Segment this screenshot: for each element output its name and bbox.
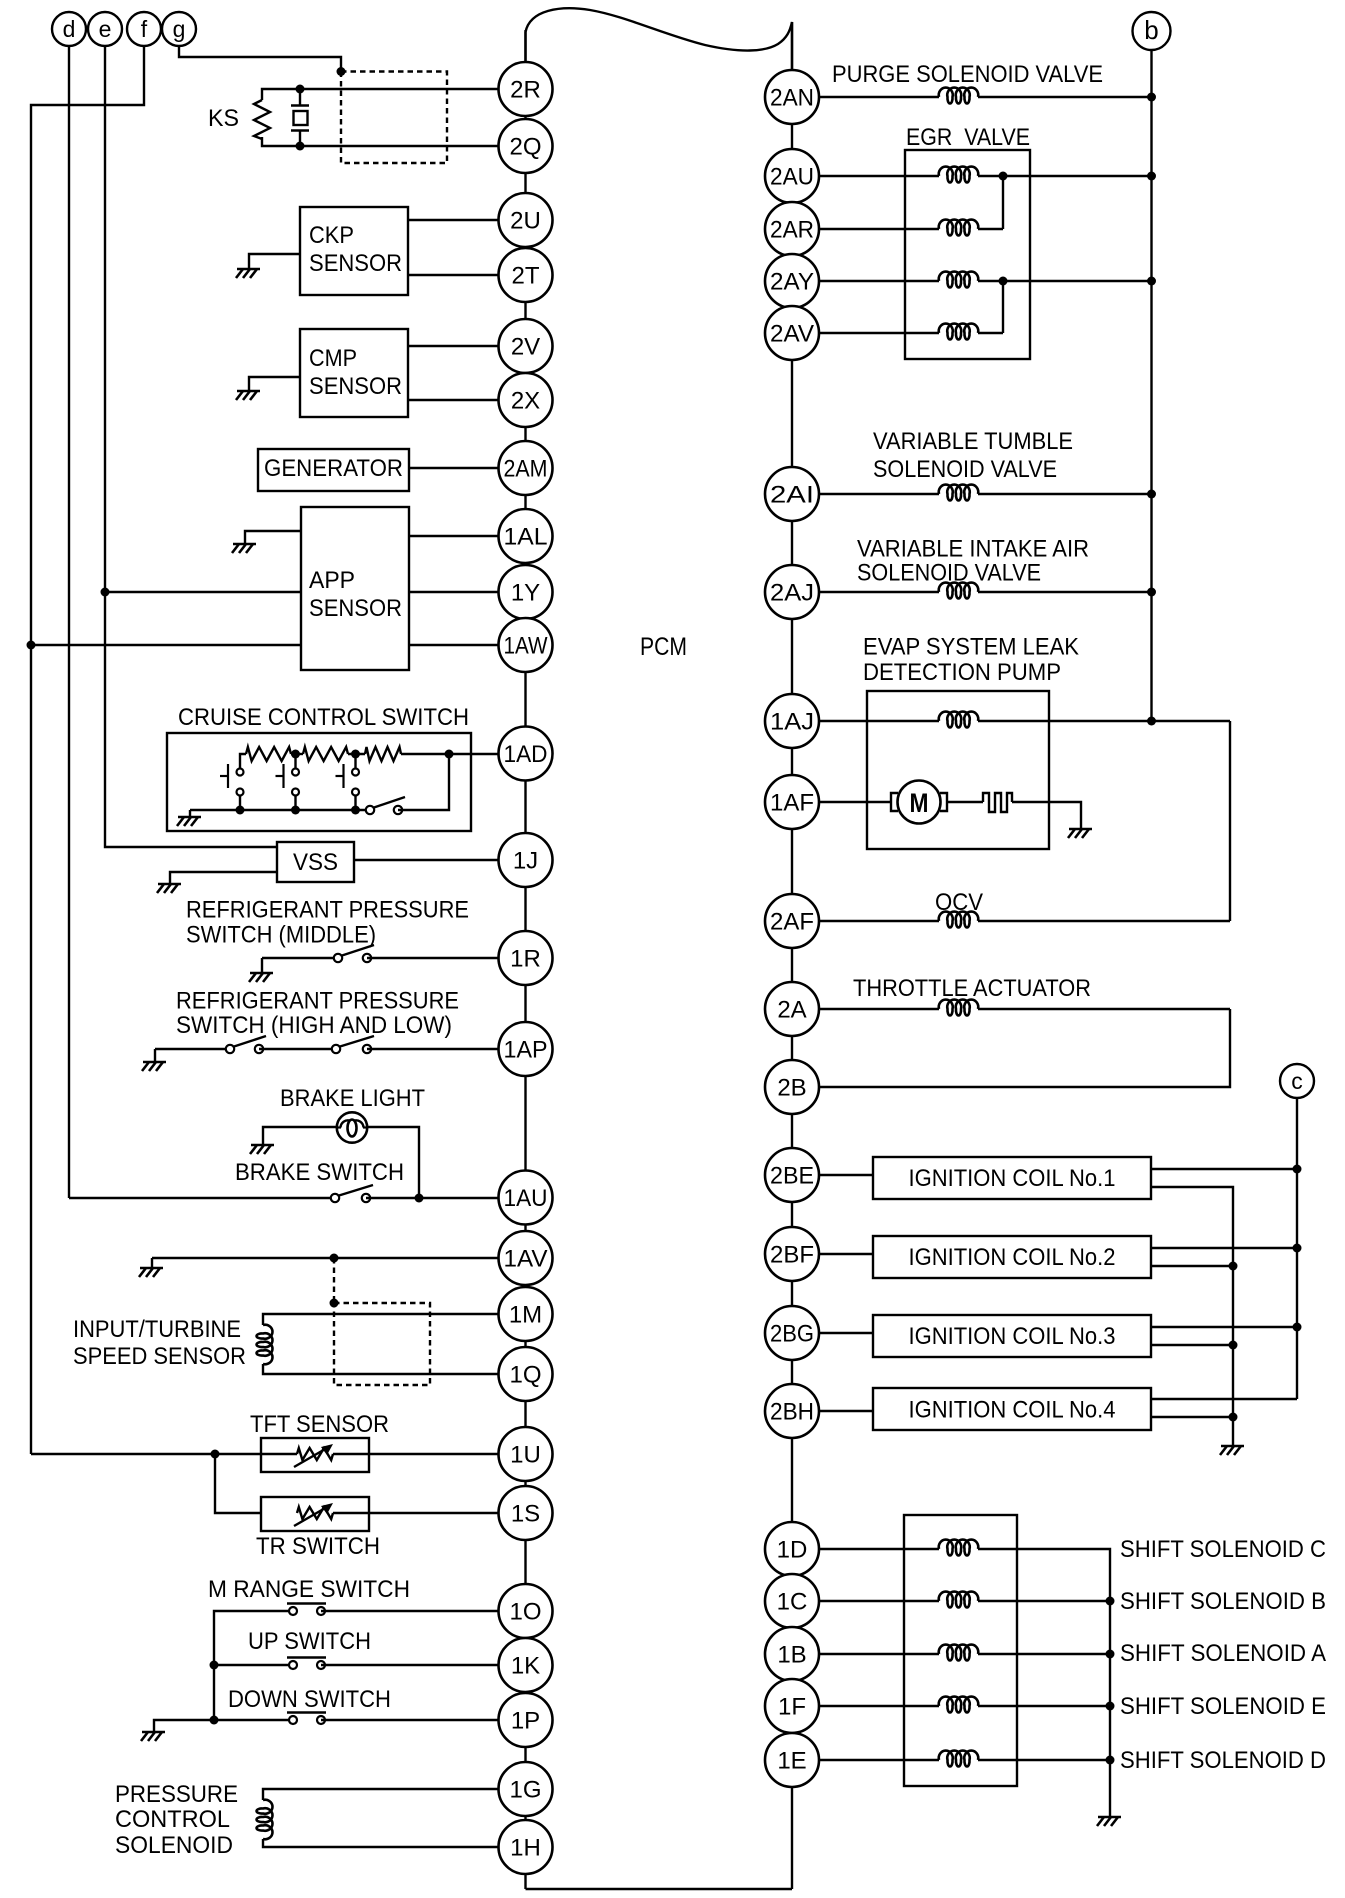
push switch cruise S2 [294,754,296,769]
svg-text:PURGE SOLENOID VALVE: PURGE SOLENOID VALVE [832,61,1103,88]
PCM pin 1P [499,1693,553,1747]
wire 1C line [819,1600,939,1602]
svg-text:1AP: 1AP [504,1037,548,1064]
node KS bottom [296,142,305,151]
PCM pin 2U [499,193,553,247]
node EGR 2 [999,277,1008,286]
svg-text:1C: 1C [777,1589,808,1616]
node ignition 3 at c bus [1293,1323,1302,1332]
svg-text:IGNITION COIL No.3: IGNITION COIL No.3 [909,1323,1116,1350]
inductor EGR coil 3 [939,272,979,288]
wire 2AI line [819,493,939,495]
node brake light junction [415,1194,424,1203]
wire VSS to 1J [354,859,499,861]
svg-text:1O: 1O [509,1599,541,1626]
svg-text:2AJ: 2AJ [770,580,814,607]
wire 1H [263,1839,499,1847]
svg-text:c: c [1291,1068,1303,1094]
svg-text:CKP: CKP [309,222,354,249]
wire shield drop (dashed) [333,1258,335,1303]
node EGR 1 [999,172,1008,181]
svg-text:THROTTLE ACTUATOR: THROTTLE ACTUATOR [853,975,1091,1002]
wire 1R to pin [367,957,499,959]
wire 2AN line [819,96,939,98]
node shift A [1106,1650,1115,1659]
svg-text:DOWN SWITCH: DOWN SWITCH [228,1686,391,1713]
wire 1AF line [819,801,891,803]
PCM pin 2BE [765,1148,819,1202]
svg-text:2AF: 2AF [770,909,814,936]
wire 1AJ to OCV return [1229,721,1231,921]
PCM pin 1R [499,931,553,985]
svg-text:SOLENOID: SOLENOID [115,1832,233,1859]
node cruise bottom 3 [351,806,360,815]
PCM pin 1AV [499,1231,553,1285]
ground brake light [251,1144,274,1147]
wire 1AP to pin [367,1048,499,1050]
node 1AV shield junction [330,1254,339,1263]
inductor variable intake air solenoid [939,583,979,599]
node EGR 2 at b bus [1147,277,1156,286]
svg-text:1K: 1K [511,1653,540,1680]
svg-text:1J: 1J [513,848,538,875]
PCM pin 1F [765,1679,819,1733]
node f-line 1AW junction [27,641,36,650]
PCM pin 2AN [765,70,819,124]
PCM pin 2AI [765,467,819,521]
lamp brake light [337,1112,367,1142]
svg-text:1S: 1S [511,1501,540,1528]
svg-text:2BG: 2BG [770,1321,814,1348]
node cruise rail 2 [351,750,360,759]
wire down switch left [214,1719,293,1721]
svg-text:1AF: 1AF [770,790,814,817]
node e [88,12,122,46]
PCM pin 2R [499,62,553,116]
svg-text:SENSOR: SENSOR [309,595,402,622]
switch M range [287,1602,326,1604]
node down switch [210,1716,219,1725]
wire up to 1K [321,1664,499,1666]
wire down ground lead [154,1720,214,1732]
svg-text:1R: 1R [510,946,541,973]
KS shield dashed box [341,72,447,164]
wire 1B line [819,1653,939,1655]
PCM pin 2X [499,373,553,427]
ground shift solenoids [1098,1816,1121,1819]
ground CMP [237,390,260,393]
node ignition 2 at ground bus [1229,1262,1238,1271]
EVAP pump box [867,691,1049,849]
PCM pin 1Q [499,1347,553,1401]
svg-text:TFT SENSOR: TFT SENSOR [250,1411,389,1438]
wire harness wave at top of PCM [526,8,793,70]
wire CMP to 2V [408,345,499,347]
inductor shift solenoid B [939,1592,979,1608]
PCM pin 2Q [499,119,553,173]
svg-text:SOLENOID VALVE: SOLENOID VALVE [873,456,1057,483]
wire throttle return [819,1009,1230,1087]
ground 1AV [140,1267,163,1270]
capacitor KS piezo element [291,104,309,106]
wire brake light left [263,1127,337,1145]
wire cruise switch out [398,754,449,810]
wire 2AR line [819,228,939,230]
svg-text:1P: 1P [511,1708,540,1735]
PCM pin 1AL [499,509,553,563]
wire 1R ground lead [261,958,263,973]
svg-text:VSS: VSS [293,849,338,876]
switch refrigerant high-low 2 [340,1036,374,1047]
wire CMP ground lead [249,377,300,391]
svg-text:2AY: 2AY [770,269,814,296]
svg-text:1AU: 1AU [504,1185,548,1212]
svg-text:TR SWITCH: TR SWITCH [256,1533,380,1560]
switch refrigerant high-low 1 [234,1036,266,1047]
wire 2BG line [819,1332,873,1334]
PCM pin 2A [765,982,819,1036]
node 1AJ at b bus [1147,717,1156,726]
IGNITION COIL No.1 box [873,1157,1151,1199]
PCM pin 2AR [765,202,819,256]
wire ignition 2 bottom [1151,1265,1233,1267]
GENERATOR box [258,449,409,491]
wire cruise rail seg [291,753,303,755]
wire 1E line [819,1759,939,1761]
svg-text:2AU: 2AU [770,164,814,191]
ground ignition coils [1221,1445,1244,1448]
svg-text:1AD: 1AD [504,741,548,768]
svg-text:SWITCH (HIGH AND LOW): SWITCH (HIGH AND LOW) [176,1012,452,1039]
wire 1AP left [155,1048,230,1050]
svg-text:IGNITION COIL No.1: IGNITION COIL No.1 [909,1165,1116,1192]
inductor shift solenoid D [939,1751,979,1767]
svg-text:2A: 2A [777,997,806,1024]
ground cruise [178,816,201,819]
wire from f down-left-down to TFT line [31,46,144,1454]
svg-text:1G: 1G [509,1777,541,1804]
inductor shift solenoid A [939,1645,979,1661]
svg-text:REFRIGERANT PRESSURE: REFRIGERANT PRESSURE [176,988,459,1015]
PCM pin 1M [499,1287,553,1341]
PCM pin 1AJ [765,694,819,748]
PCM pin 1H [499,1820,553,1874]
resistor cruise R1 [246,747,291,761]
node d [52,12,86,46]
wire APP to 1AW [409,644,499,646]
svg-text:2X: 2X [511,388,540,415]
wire cruise ground lead [189,810,191,817]
wire 1M [263,1314,499,1325]
svg-text:2Q: 2Q [509,134,541,161]
svg-text:BRAKE LIGHT: BRAKE LIGHT [280,1085,425,1112]
wire motor to contact [947,801,983,803]
svg-text:2U: 2U [510,208,541,235]
wire 1B right [978,1653,1110,1655]
svg-text:M: M [910,788,929,818]
svg-text:1D: 1D [777,1537,808,1564]
svg-text:1E: 1E [777,1748,806,1775]
PCM pin 1K [499,1638,553,1692]
svg-text:CMP: CMP [309,345,357,372]
node ignition 2 at c bus [1293,1244,1302,1253]
PCM pin 2BG [765,1306,819,1360]
switch contact comb EVAP [983,793,1012,812]
ground refrigerant high-low [143,1061,166,1064]
inductor EVAP pump coil [939,712,979,728]
inductor EGR coil 4 [939,324,979,340]
svg-text:1AW: 1AW [504,633,548,660]
push switch cruise S3 [354,754,356,769]
svg-text:2T: 2T [511,263,539,290]
svg-text:PCM: PCM [640,633,687,661]
PCM pin 1AD [499,727,553,781]
wire 1AP ground lead [154,1049,156,1062]
PCM pin 2AY [765,254,819,308]
svg-text:UP SWITCH: UP SWITCH [248,1628,371,1655]
PCM pin 2T [499,248,553,302]
TR switch box [261,1497,369,1531]
PCM pin 1AP [499,1022,553,1076]
inductor variable tumble solenoid [939,485,979,501]
wire KS to 2Q [300,145,499,147]
wire APP to 1AL [409,535,499,537]
wire PCM bottom [526,1888,793,1890]
wire 1AP mid [259,1048,336,1050]
svg-text:1B: 1B [777,1642,806,1669]
push switch cruise S1 [237,769,244,776]
svg-text:SHIFT SOLENOID B: SHIFT SOLENOID B [1120,1588,1326,1615]
svg-text:1F: 1F [778,1694,806,1721]
wire 1F line [819,1705,939,1707]
wire 1U right [333,1453,499,1455]
svg-text:SHIFT SOLENOID C: SHIFT SOLENOID C [1120,1536,1326,1563]
svg-text:2AV: 2AV [770,321,814,348]
svg-text:M RANGE SWITCH: M RANGE SWITCH [208,1576,410,1603]
PCM pin 1B [765,1627,819,1681]
wire KS top rail [262,89,300,100]
wire 1R left [262,957,338,959]
svg-text:2R: 2R [510,77,541,104]
EGR valve box [905,150,1030,359]
wire cruise rail seg2 [348,753,365,755]
svg-text:GENERATOR: GENERATOR [264,455,403,482]
wire M range to 1O [321,1610,499,1612]
node intake at b bus [1147,588,1156,597]
wire 1G [263,1789,499,1800]
wire ignition 1 bottom [1151,1187,1233,1446]
wire 2BE line [819,1174,873,1176]
svg-text:BRAKE SWITCH: BRAKE SWITCH [235,1159,404,1186]
svg-text:2B: 2B [777,1075,806,1102]
PCM pin 2AF [765,894,819,948]
svg-text:KS: KS [208,105,239,132]
VSS box [277,842,354,882]
svg-text:e: e [99,16,112,42]
wire c bus [1296,1098,1298,1399]
svg-text:DETECTION PUMP: DETECTION PUMP [863,659,1061,686]
switch cruise cancel [374,797,405,808]
wire EVAP to ground [1012,802,1081,829]
node KS shield junction [337,67,346,76]
node shift B [1106,1597,1115,1606]
svg-text:1M: 1M [509,1302,542,1329]
node b [1133,12,1171,50]
svg-text:INPUT/TURBINE: INPUT/TURBINE [73,1316,241,1343]
PCM pin 2BH [765,1384,819,1438]
wire 1AU to pin [366,1197,499,1199]
svg-text:2AN: 2AN [770,85,814,112]
wire 2BF line [819,1253,873,1255]
svg-text:2AI: 2AI [770,482,814,509]
switch down [287,1711,326,1713]
CMP sensor box [300,329,408,417]
node ignition 3 at ground bus [1229,1341,1238,1350]
shift solenoid box [904,1515,1017,1786]
wire 2A line [819,1008,939,1010]
node e-line 1Y junction [101,588,110,597]
PCM pin 2BF [765,1227,819,1281]
svg-text:APP: APP [309,567,355,594]
svg-text:2AM: 2AM [504,456,548,483]
wire from d down to brake switch line [68,46,70,1198]
PCM pin 2AU [765,149,819,203]
wire VSS ground lead [170,872,277,884]
wire f-line to APP [31,644,301,646]
wire CKP to 2T [408,274,499,276]
wire 2AF line [819,920,939,922]
wire ignition 3 bottom [1151,1344,1233,1346]
resistor cruise R3 [365,747,401,761]
wire 2BH line [819,1410,873,1412]
node c [1280,1064,1314,1098]
svg-text:2BF: 2BF [770,1242,814,1269]
node shield box corner [330,1299,339,1308]
node ignition 1 at c bus [1293,1165,1302,1174]
svg-text:IGNITION COIL No.4: IGNITION COIL No.4 [909,1397,1116,1424]
ground VSS [158,883,181,886]
wire APP ground lead [245,531,301,544]
svg-text:EVAP SYSTEM LEAK: EVAP SYSTEM LEAK [863,634,1079,661]
svg-text:1AJ: 1AJ [770,709,814,736]
TFT sensor box [261,1438,369,1472]
wire from e down to VSS line [105,46,277,847]
switch refrigerant middle [342,945,374,956]
wire TFT to TR drop [215,1454,297,1513]
inductor throttle actuator [939,1000,979,1016]
PCM pin 2V [499,319,553,373]
svg-text:CONTROL: CONTROL [115,1806,230,1833]
ground refrigerant middle [250,972,273,975]
svg-text:IGNITION COIL No.2: IGNITION COIL No.2 [909,1244,1116,1271]
wire 1AV [152,1257,499,1259]
PCM pin 2AJ [765,565,819,619]
node up switch [210,1661,219,1670]
wire 1AV ground lead [151,1258,153,1268]
ground EVAP pump [1069,828,1092,831]
svg-text:SHIFT SOLENOID D: SHIFT SOLENOID D [1120,1747,1326,1774]
PCM pin 1D [765,1522,819,1576]
IGNITION COIL No.3 box [873,1315,1151,1357]
svg-text:VARIABLE TUMBLE: VARIABLE TUMBLE [873,428,1073,455]
svg-text:2AR: 2AR [770,217,814,244]
wire 2AJ line [819,591,939,593]
svg-text:1Q: 1Q [509,1362,541,1389]
node cruise bottom 2 [291,806,300,815]
IGNITION COIL No.4 box [873,1388,1151,1430]
svg-text:VARIABLE INTAKE AIR: VARIABLE INTAKE AIR [857,536,1089,563]
svg-text:2V: 2V [511,334,540,361]
wire cruise rail to 1AD [401,753,499,755]
wire ignition 4 top [1151,1398,1297,1400]
inductor pressure control solenoid [257,1800,273,1840]
wire brake light right [367,1127,419,1198]
svg-text:1H: 1H [510,1835,541,1862]
PCM pin 1J [499,833,553,887]
svg-text:1AV: 1AV [504,1246,548,1273]
svg-text:1Y: 1Y [511,580,540,607]
svg-text:SENSOR: SENSOR [309,373,402,400]
svg-text:g: g [173,16,186,42]
wire 1D right [978,1549,1110,1817]
input sensor shield dashed box [334,1303,430,1385]
svg-text:CRUISE CONTROL SWITCH: CRUISE CONTROL SWITCH [178,704,469,731]
wire CMP to 2X [408,399,499,401]
wire cruise bottom rail [190,809,366,811]
wire from g to KS shield [179,46,341,72]
svg-text:b: b [1144,15,1158,45]
svg-text:1AL: 1AL [504,524,548,551]
ground APP [233,543,256,546]
switch up [287,1656,326,1658]
inductor input speed sensor coil [257,1325,273,1365]
wire EGR link 1 [1002,176,1004,229]
wire 1Q [263,1364,499,1374]
wire KS bottom rail [262,137,300,146]
switch brake [339,1185,373,1196]
PCM pin 1AF [765,775,819,829]
node shift E [1106,1702,1115,1711]
PCM pin 1C [765,1574,819,1628]
thermistor TFT [297,1448,333,1460]
inductor shift solenoid E [939,1697,979,1713]
PCM pin 1E [765,1733,819,1787]
wire 1C right [978,1600,1110,1602]
IGNITION COIL No.2 box [873,1236,1151,1278]
CRUISE CONTROL SWITCH box [167,733,471,831]
wire down to 1P [321,1719,499,1721]
svg-text:2BH: 2BH [770,1399,814,1426]
wire 1E right [978,1759,1110,1761]
PCM pin 1G [499,1762,553,1816]
resistor cruise R2 [303,747,348,761]
wire ignition 4 bottom [1151,1416,1233,1418]
svg-text:SWITCH (MIDDLE): SWITCH (MIDDLE) [186,922,376,949]
thermistor TR [297,1507,333,1519]
svg-text:1U: 1U [510,1442,541,1469]
node g [162,12,196,46]
node KS top [296,85,305,94]
motor M EVAP pump [891,793,898,811]
inductor EGR coil 1 [939,167,978,183]
node cruise rail 1 [291,750,300,759]
PCM pin 2AV [765,306,819,360]
wire EGR link 2 [1002,281,1004,333]
svg-text:SHIFT SOLENOID A: SHIFT SOLENOID A [1120,1640,1326,1667]
svg-text:EGR VALVE: EGR VALVE [906,124,1030,151]
wire TR to 1S [333,1512,499,1514]
node cruise bottom 1 [236,806,245,815]
